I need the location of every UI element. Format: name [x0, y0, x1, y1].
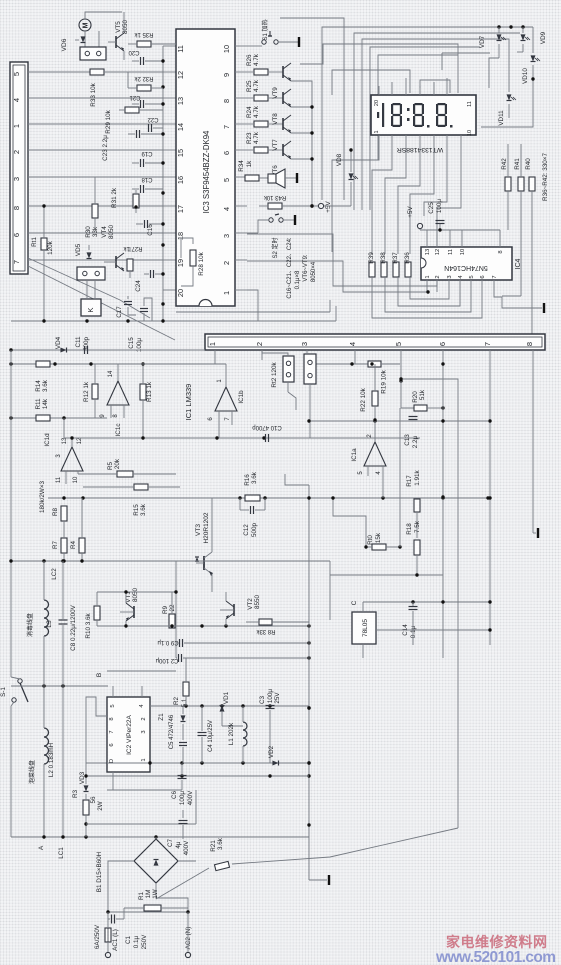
svg-text:12: 12: [176, 71, 185, 79]
IC3 right pin stub: [235, 232, 247, 234]
wire x458 sense: [401, 379, 458, 828]
wire bundle 2: [362, 39, 509, 210]
wire IC3 left pin stub: [163, 289, 176, 291]
svg-text:R23: R23: [246, 132, 253, 144]
diode VD4: [60, 348, 66, 353]
svg-text:7: 7: [483, 342, 492, 346]
display bottom pin: [433, 135, 435, 144]
svg-text:VD10: VD10: [522, 68, 529, 84]
svg-text:IC4: IC4: [515, 258, 522, 269]
svg-text:R8 33k: R8 33k: [255, 628, 275, 634]
svg-text:S1 加热: S1 加热: [261, 19, 269, 40]
connector relay plug: [77, 267, 105, 280]
wire bundle 2c: [332, 70, 410, 95]
svg-text:120k: 120k: [47, 240, 54, 255]
svg-text:5: 5: [394, 342, 403, 346]
capacitor C11: [84, 346, 86, 354]
resistor R38: [381, 262, 387, 277]
svg-text:C17: C17: [116, 306, 123, 318]
svg-text:51k: 51k: [419, 389, 426, 400]
capacitor C9 0.1u: [179, 639, 181, 647]
svg-text:10: 10: [467, 130, 473, 136]
svg-text:家电维修资料网: 家电维修资料网: [446, 934, 548, 950]
op-amp IC1c: [107, 381, 129, 405]
resistor R29 10k: [125, 107, 139, 113]
svg-text:4μ: 4μ: [175, 841, 182, 849]
wire IC2 top pins: [112, 686, 114, 697]
svg-text:2: 2: [141, 717, 147, 720]
svg-text:B1 D15×B60H: B1 D15×B60H: [96, 851, 103, 892]
wire CN1 row y150: [28, 149, 163, 151]
capacitor C2 100u: [178, 654, 180, 662]
svg-text:3: 3: [222, 234, 231, 238]
svg-text:C18: C18: [141, 176, 153, 182]
wire IC4-R38 loop: [385, 276, 471, 312]
svg-text:4.7k: 4.7k: [253, 105, 260, 118]
thermistor Rt0 15k: [333, 498, 366, 547]
svg-text:15: 15: [176, 149, 185, 157]
transistor VT9: [282, 66, 284, 78]
svg-text:3.6k: 3.6k: [140, 503, 147, 516]
svg-text:C16: C16: [147, 224, 154, 236]
svg-text:H20R1202: H20R1202: [203, 512, 210, 543]
svg-text:R43 10k: R43 10k: [263, 194, 286, 200]
svg-text:2: 2: [12, 150, 21, 154]
wire left bus x11: [10, 350, 12, 677]
svg-text:L1 202k: L1 202k: [228, 722, 235, 745]
resistor R28 10k: [190, 250, 196, 266]
svg-text:B: B: [96, 673, 103, 677]
resistor R8b 33k: [259, 619, 272, 625]
wire diagonal CN1-7: [28, 266, 175, 340]
svg-text:R11: R11: [35, 398, 42, 410]
op-amp IC1a: [364, 442, 386, 466]
display bottom pin: [460, 135, 462, 144]
svg-text:78L05: 78L05: [362, 619, 369, 637]
svg-text:A: A: [38, 845, 45, 850]
capacitor C4 10u/25V: [198, 732, 207, 734]
svg-text:100μ: 100μ: [267, 689, 274, 704]
svg-text:8050: 8050: [108, 225, 115, 240]
svg-text:8: 8: [12, 206, 21, 210]
IC4 5N74HC164N: [421, 247, 512, 280]
IC3 right pin stub: [235, 71, 247, 73]
wire rail y350: [11, 349, 205, 351]
diode VD3: [84, 785, 89, 791]
wire IC4 pin7 gnd: [494, 292, 542, 308]
wire IC3 left pin stub: [163, 176, 176, 178]
resistor R40 330: [529, 177, 535, 191]
svg-text:C8 0.22μ/1200V: C8 0.22μ/1200V: [70, 604, 77, 650]
connector CN2 bar: [205, 334, 545, 350]
junction: [161, 85, 164, 88]
svg-text:Rt2 120k: Rt2 120k: [271, 362, 278, 388]
svg-text:R22 10k: R22 10k: [360, 387, 367, 411]
LED VD7: [497, 34, 502, 40]
svg-text:IC1b: IC1b: [238, 390, 245, 404]
wire disp drop 3: [398, 144, 420, 254]
wire bridge left: [108, 861, 134, 912]
wire VT emitter bus: [291, 81, 312, 206]
svg-text:VT9: VT9: [272, 87, 279, 99]
svg-text:IC1c: IC1c: [115, 424, 122, 437]
wire IC3 left pin stub: [163, 45, 176, 47]
svg-text:R26: R26: [246, 54, 253, 66]
svg-text:www.520101.com: www.520101.com: [435, 949, 555, 965]
wire CN1 row y72: [28, 71, 163, 73]
resistor R3 56 2W: [83, 800, 89, 815]
junction: [161, 191, 164, 194]
wire diagonal mains: [232, 828, 458, 864]
svg-text:C24: C24: [135, 280, 142, 292]
wire x309: [285, 474, 309, 485]
wire CN1 row y98: [28, 97, 163, 99]
capacitor C16: [144, 220, 146, 228]
resistor R8: [61, 506, 67, 521]
svg-text:8: 8: [498, 250, 504, 253]
capacitor C21: [140, 100, 142, 108]
svg-text:VD6: VD6: [61, 38, 68, 51]
wire y592: [97, 591, 176, 593]
svg-text:11: 11: [448, 249, 454, 255]
capacitor C20: [140, 57, 142, 65]
wire y912: [108, 911, 188, 913]
resistor R10 3.6k: [94, 606, 100, 620]
wire rail y312: [176, 311, 330, 313]
display colon: [407, 108, 410, 111]
resistor R43 10k: [268, 203, 282, 209]
svg-text:Rt0: Rt0: [367, 535, 374, 545]
svg-text:VT2: VT2: [247, 598, 254, 610]
svg-text:R37: R37: [392, 252, 399, 264]
resistor R36: [405, 262, 411, 277]
resistor R4: [79, 538, 85, 553]
svg-text:R33 10k: R33 10k: [90, 82, 97, 106]
wire CN1 row y260: [28, 259, 163, 261]
svg-text:C21: C21: [129, 94, 141, 100]
wire y498: [48, 497, 488, 499]
wire x533 lower: [532, 350, 534, 533]
svg-text:LC2: LC2: [51, 568, 58, 580]
svg-text:3: 3: [12, 177, 21, 181]
wire y626: [97, 625, 309, 627]
svg-text:VD2: VD2: [268, 745, 275, 758]
svg-text:8050: 8050: [132, 588, 139, 603]
transistor VT8: [282, 92, 284, 104]
IC3 right pin stub: [235, 259, 247, 261]
svg-text:C13: C13: [404, 434, 411, 446]
capacitor C3 100u 25V: [266, 705, 275, 707]
svg-text:400V: 400V: [187, 790, 194, 806]
svg-text:3: 3: [447, 275, 453, 278]
svg-text:18: 18: [176, 232, 185, 240]
wire y790: [86, 823, 196, 825]
display top pin: [378, 86, 380, 95]
resistor R24 4.7k: [254, 121, 268, 127]
resistor R5 20k: [117, 471, 133, 477]
resistor R26 4.7k: [254, 69, 268, 75]
svg-text:11: 11: [176, 45, 185, 53]
display digit 8 #1: [393, 103, 401, 105]
ground S2: [294, 215, 296, 225]
wire y438: [64, 437, 420, 439]
IC2 VIPer22A: [107, 697, 150, 772]
svg-text:1M: 1M: [145, 890, 152, 899]
svg-text:M: M: [83, 22, 90, 28]
svg-text:5: 5: [12, 72, 21, 76]
svg-text:C1: C1: [125, 935, 132, 944]
svg-text:0.1μ: 0.1μ: [410, 625, 417, 638]
wire y561: [11, 560, 330, 562]
svg-text:33k: 33k: [92, 226, 99, 237]
wire y562 x176: [175, 561, 177, 658]
svg-text:K: K: [86, 307, 95, 312]
svg-text:13: 13: [425, 249, 431, 255]
svg-text:C15: C15: [128, 337, 135, 349]
wire CN1 row y206: [28, 205, 163, 207]
LED VD9: [521, 34, 526, 40]
IC3 S3F9454BZZ-DK94: [176, 29, 235, 306]
plug pin2: [283, 356, 294, 382]
diode VD6: [81, 36, 86, 42]
svg-text:R10 3.6k: R10 3.6k: [85, 613, 92, 639]
svg-text:7: 7: [109, 730, 115, 733]
plug pin3: [304, 354, 316, 384]
svg-text:VD9: VD9: [540, 31, 547, 44]
wire IC2 left pins: [86, 697, 107, 763]
capacitor C18: [140, 185, 142, 193]
svg-text:IC1d: IC1d: [44, 433, 51, 447]
wire IC3 left pin stub: [163, 232, 176, 234]
svg-text:泡菜线盘: 泡菜线盘: [28, 760, 36, 784]
svg-text:Rt1: Rt1: [31, 237, 38, 247]
capacitor C19: [140, 159, 142, 167]
svg-text:2W: 2W: [97, 801, 104, 811]
svg-text:10: 10: [222, 45, 231, 53]
wire x330: [329, 561, 331, 620]
switch S1: [262, 40, 266, 44]
relay K: [81, 299, 101, 316]
svg-text:12: 12: [435, 249, 441, 255]
svg-text:+5V: +5V: [325, 201, 332, 213]
svg-text:14: 14: [176, 123, 185, 131]
display dp1: [427, 125, 430, 128]
wire bus left of IC3: [162, 46, 164, 321]
svg-text:3.6k: 3.6k: [217, 837, 224, 850]
svg-text:5: 5: [222, 178, 231, 182]
ground buzzer: [296, 173, 298, 183]
svg-text:R13 1k: R13 1k: [146, 381, 153, 402]
svg-text:5: 5: [469, 275, 475, 278]
display WT1334188SR: [371, 95, 476, 135]
svg-text:R34: R34: [238, 160, 245, 172]
svg-text:R21: R21: [210, 840, 217, 852]
svg-text:R30: R30: [85, 226, 92, 238]
svg-text:22: 22: [169, 604, 176, 612]
svg-text:14: 14: [108, 370, 114, 377]
svg-text:0.1μ×8: 0.1μ×8: [295, 270, 301, 289]
display bottom pin: [405, 135, 407, 144]
svg-text:20k: 20k: [114, 458, 121, 469]
svg-text:8050×4: 8050×4: [311, 261, 317, 282]
svg-text:R40: R40: [525, 158, 532, 170]
svg-text:4.7k: 4.7k: [253, 79, 260, 92]
IC3 right pin stub: [235, 97, 247, 99]
svg-text:R19 10k: R19 10k: [381, 369, 388, 393]
supply +5V: [310, 204, 313, 207]
terminal AC1: [105, 952, 110, 957]
display top pin: [405, 78, 407, 95]
wire bundle 2e: [441, 53, 443, 70]
wire IC3 left pin stub: [163, 205, 176, 207]
svg-text:C10 4700p: C10 4700p: [252, 424, 282, 430]
IC3 right pin stub: [235, 176, 247, 178]
svg-text:R29 10k: R29 10k: [105, 109, 112, 133]
svg-text:2: 2: [255, 342, 264, 346]
svg-text:AC2 (N): AC2 (N): [185, 927, 192, 950]
svg-text:4.7k: 4.7k: [253, 131, 260, 144]
svg-text:5N74HC164N: 5N74HC164N: [444, 264, 488, 271]
resistor R13 1k: [140, 384, 146, 400]
transistor VT6: [282, 144, 284, 156]
svg-text:C3: C3: [259, 695, 266, 704]
svg-text:Z1: Z1: [158, 713, 165, 721]
svg-text:500p: 500p: [251, 523, 258, 538]
wire +5V rail IC4: [420, 229, 500, 231]
IC3 right pin stub: [235, 205, 247, 207]
wire x443: [442, 350, 444, 658]
svg-text:C7: C7: [167, 838, 174, 847]
svg-text:0.1μ: 0.1μ: [133, 935, 140, 948]
svg-text:10: 10: [460, 249, 466, 255]
svg-text:R1: R1: [138, 891, 145, 900]
svg-text:7: 7: [222, 125, 231, 129]
op-amp IC1d: [61, 447, 83, 471]
wire diagonal CN1-6: [28, 258, 150, 318]
wire right col: [481, 92, 533, 127]
svg-text:VT8: VT8: [272, 113, 279, 125]
LED VD10: [531, 55, 536, 61]
svg-text:20: 20: [176, 289, 185, 297]
svg-text:2.2μ: 2.2μ: [412, 435, 419, 448]
connector CN1: [10, 62, 28, 274]
wire y645: [376, 629, 490, 631]
svg-text:13: 13: [176, 97, 185, 105]
bridge B1 D15xB60H: [134, 839, 178, 883]
wire IC3 left pin stub: [163, 259, 176, 261]
switch S-1: [18, 679, 22, 683]
svg-text:R7: R7: [52, 540, 59, 549]
svg-text:16: 16: [176, 176, 185, 184]
svg-text:R32 2k: R32 2k: [133, 75, 153, 81]
wire CN1 row y233: [28, 232, 163, 234]
capacitor C6 100u 400V: [178, 775, 187, 777]
svg-text:3.6k: 3.6k: [42, 379, 49, 392]
wire x489: [489, 350, 491, 645]
svg-text:8: 8: [222, 99, 231, 103]
wire CN1 row y124: [28, 123, 163, 125]
svg-text:10: 10: [73, 476, 79, 483]
junction: [161, 243, 164, 246]
svg-text:1: 1: [222, 291, 231, 295]
wire y763 rail: [107, 762, 309, 764]
resistor R32 2k: [137, 85, 151, 91]
LED VD11: [507, 94, 512, 100]
svg-text:VD5: VD5: [75, 243, 82, 256]
svg-text:VT4: VT4: [101, 226, 108, 238]
svg-text:R31 2k: R31 2k: [111, 187, 118, 208]
capacitor C25 100u: [436, 220, 445, 222]
svg-text:C5 472/4746: C5 472/4746: [169, 714, 175, 749]
resistor R35 1k: [137, 41, 151, 47]
svg-text:C11: C11: [75, 336, 82, 348]
svg-text:250V: 250V: [141, 934, 148, 950]
display bottom pin: [391, 135, 393, 144]
svg-text:1W: 1W: [152, 889, 159, 899]
resistor R25 4.7k: [254, 95, 268, 101]
svg-text:19: 19: [176, 259, 185, 267]
IC3 right pin stub: [235, 149, 247, 151]
svg-text:R9: R9: [162, 605, 169, 614]
wire bundle 3: [370, 47, 480, 210]
IC3 right pin stub: [235, 289, 247, 291]
svg-text:2: 2: [435, 275, 441, 278]
transistor VT5: [115, 36, 117, 48]
svg-text:4: 4: [12, 98, 21, 102]
wire rail y321: [11, 320, 176, 322]
wire disp drop 4: [410, 144, 434, 254]
display digit 8 #2: [415, 103, 423, 105]
capacitor C14 0.1u: [409, 606, 418, 608]
wire bridge bottom: [156, 883, 188, 912]
svg-text:4.7k: 4.7k: [253, 53, 260, 66]
svg-text:IC1a: IC1a: [351, 448, 358, 462]
capacitor C10 4700p: [265, 434, 267, 442]
resistor R12 1k: [92, 384, 98, 399]
svg-text:IC3 S3F9454BZZ-DK94: IC3 S3F9454BZZ-DK94: [202, 130, 211, 213]
wire IC4-R36 loop: [410, 276, 449, 299]
resistor R23 4.7k: [254, 147, 268, 153]
diode VD2: [272, 761, 278, 766]
resistor R14 3.6k: [36, 361, 50, 367]
wire y706 rail: [150, 705, 309, 707]
resistor R34 1k: [245, 175, 259, 181]
wire IC3 left pin stub: [163, 123, 176, 125]
svg-text:IC2 VIPer22A: IC2 VIPer22A: [126, 714, 133, 754]
svg-text:VT3: VT3: [195, 524, 202, 536]
display top pin: [391, 82, 393, 95]
svg-text:AC1 (L): AC1 (L): [112, 929, 119, 951]
wire top rail: [322, 27, 533, 200]
resistor R2 5.1: [183, 682, 189, 696]
resistor R17 1.91k: [414, 499, 420, 512]
wire bundle 2d: [420, 80, 450, 93]
wire pin5 drop: [400, 350, 402, 381]
svg-text:5.1: 5.1: [181, 698, 188, 707]
display digit 8 #3: [438, 103, 446, 105]
svg-text:7: 7: [492, 275, 498, 278]
resistor R22 10k: [372, 391, 378, 406]
svg-text:15k: 15k: [375, 532, 382, 543]
resistor R39: [369, 262, 375, 277]
svg-text:R15: R15: [133, 504, 140, 516]
connector fan plug: [80, 47, 106, 60]
fuse 6A/250V: [105, 928, 111, 942]
svg-text:4: 4: [348, 342, 357, 346]
svg-text:消毒线盘: 消毒线盘: [26, 613, 34, 637]
diode VD1: [220, 706, 225, 712]
wire bundle 2b: [300, 44, 458, 93]
